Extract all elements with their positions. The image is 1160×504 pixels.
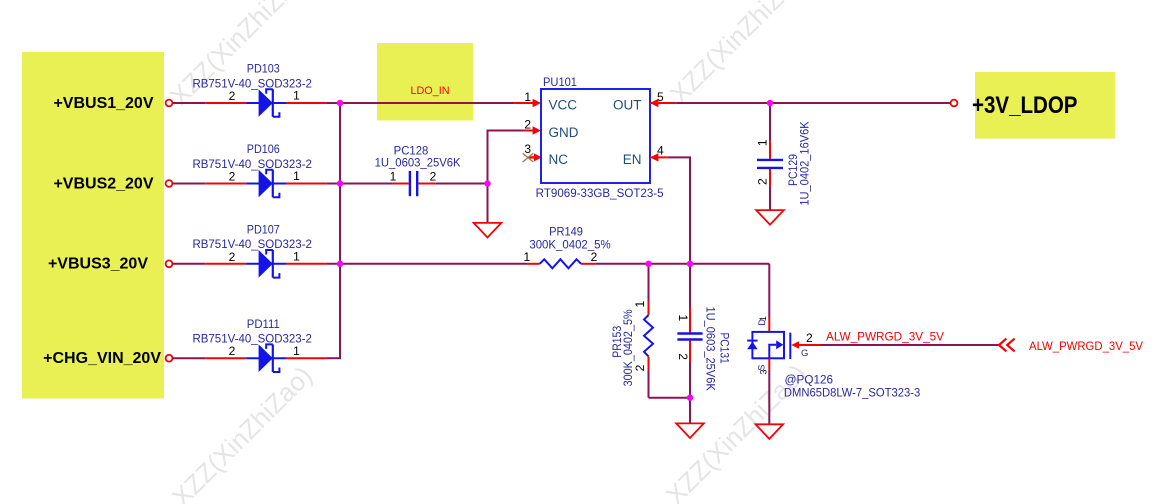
resistor PR149	[523, 227, 610, 269]
svg-text:+VBUS1_20V: +VBUS1_20V	[53, 95, 153, 112]
svg-text:PD107: PD107	[247, 225, 280, 237]
wire row1 red right	[286, 102, 326, 104]
svg-text:2: 2	[806, 331, 813, 345]
svg-text:NC: NC	[549, 152, 569, 167]
wire row4 dark left	[172, 357, 205, 359]
svg-text:1: 1	[676, 314, 690, 321]
svg-text:2: 2	[430, 170, 437, 184]
svg-text:GND: GND	[549, 125, 579, 140]
ground symbol below PQ126	[756, 424, 784, 439]
svg-text:PD106: PD106	[247, 144, 280, 156]
ground symbol below PC129	[756, 210, 784, 225]
svg-text:2: 2	[229, 170, 236, 184]
svg-text:+VBUS2_20V: +VBUS2_20V	[53, 175, 153, 192]
svg-text:PC128: PC128	[394, 145, 429, 157]
wire PR153 bottom to junction	[649, 397, 691, 399]
svg-text:1: 1	[293, 169, 300, 183]
svg-text:XZZ(XinZhiZao): XZZ(XinZhiZao)	[166, 360, 318, 504]
watermark bottom-middle	[660, 358, 812, 504]
node box VBUS inputs (yellow highlight)	[22, 52, 164, 399]
pin 5 arrow OUT	[650, 99, 658, 107]
svg-text:1: 1	[633, 301, 647, 308]
svg-text:3: 3	[524, 142, 531, 156]
watermark bottom-left	[166, 360, 318, 504]
wire row4 red left	[205, 357, 246, 359]
wire row2 dark to PC128	[326, 183, 392, 185]
svg-text:2: 2	[591, 250, 598, 264]
wire row2 red right	[286, 183, 326, 185]
svg-text:XZZ(XinZhiZao): XZZ(XinZhiZao)	[664, 0, 816, 109]
svg-text:2: 2	[229, 89, 236, 103]
svg-text:PC131: PC131	[717, 332, 729, 363]
wire row3 right of PR149	[595, 263, 769, 265]
svg-text:1U_0603_25V6K: 1U_0603_25V6K	[703, 306, 715, 391]
wire OUT pin stub red	[650, 102, 676, 104]
svg-text:ALW_PWRGD_3V_5V: ALW_PWRGD_3V_5V	[1029, 339, 1143, 353]
node junction bus row1	[337, 100, 343, 106]
svg-text:@PQ126: @PQ126	[785, 374, 833, 386]
wire row3 dark left	[172, 263, 205, 265]
pin 1 arrow VCC	[533, 99, 541, 107]
no-connect X on pin 3	[523, 153, 534, 162]
node junction GND-PC128	[484, 180, 490, 186]
wire PQ126 source to ground	[768, 370, 770, 424]
svg-text:3: 3	[759, 369, 769, 374]
wire bus vertical	[339, 103, 341, 358]
op-amp regulator U PU101 box	[541, 89, 650, 183]
terminal port +VBUS3_20V	[166, 260, 173, 267]
svg-text:+VBUS3_20V: +VBUS3_20V	[48, 256, 148, 273]
svg-text:2: 2	[229, 344, 236, 358]
diode PD103	[192, 64, 312, 117]
node LDO_IN highlight	[377, 43, 473, 121]
wire row3 dark to PR149	[326, 263, 527, 265]
wire row1 red left	[205, 102, 246, 104]
wire row4 dark corner to bus	[326, 357, 341, 359]
pin 3 arrow NC	[534, 153, 542, 161]
svg-text:ALW_PWRGD_3V_5V: ALW_PWRGD_3V_5V	[826, 329, 944, 343]
wire EN pin stub red	[650, 156, 668, 158]
node junction PR153 row3	[645, 261, 651, 267]
svg-text:2: 2	[756, 178, 770, 185]
svg-text:1: 1	[293, 344, 300, 358]
svg-text:300K_0402_5%: 300K_0402_5%	[529, 240, 610, 252]
ground symbol below PC131	[676, 423, 704, 438]
svg-text:1: 1	[293, 250, 300, 264]
svg-text:1U_0402_16V6K: 1U_0402_16V6K	[800, 121, 812, 206]
svg-text:1: 1	[756, 139, 770, 146]
diode PD106	[192, 144, 312, 197]
svg-text:2: 2	[676, 353, 690, 360]
svg-text:EN: EN	[623, 152, 642, 167]
node junction bus row2	[337, 180, 343, 186]
off-page connector chevron	[999, 339, 1015, 352]
wire row1 dark to VCC	[326, 102, 514, 104]
svg-text:2: 2	[633, 364, 647, 371]
wire ALW_PWRGD net	[821, 344, 999, 346]
node junction bus row3	[337, 261, 343, 267]
pin 2 arrow gate	[791, 341, 799, 349]
svg-text:1: 1	[390, 170, 397, 184]
svg-text:1: 1	[524, 90, 531, 104]
wire row3 red left	[205, 263, 246, 265]
svg-text:G: G	[801, 348, 808, 359]
pin 4 arrow EN	[650, 153, 658, 161]
node junction PC129	[767, 100, 773, 106]
capacitor PC131	[676, 264, 730, 398]
svg-text:2: 2	[229, 250, 236, 264]
svg-text:VCC: VCC	[549, 97, 578, 112]
wire NC pin stub red	[529, 156, 536, 158]
wire row3 corner down to PQ126 drain	[768, 264, 770, 319]
wire EN net	[668, 157, 690, 263]
watermark top-middle	[664, 0, 816, 109]
svg-text:PD103: PD103	[247, 64, 280, 76]
wire GND net dark	[488, 131, 524, 223]
svg-text:1U_0603_25V6K: 1U_0603_25V6K	[375, 158, 461, 170]
wire row2 red left	[205, 183, 246, 185]
pin 2 arrow GND	[533, 126, 541, 134]
terminal port +CHG_VIN_20V	[166, 355, 173, 362]
svg-text:PD111: PD111	[247, 319, 280, 331]
svg-text:+3V_LDOP: +3V_LDOP	[972, 92, 1078, 119]
wire row4 red right	[286, 357, 326, 359]
diode PD111	[192, 319, 312, 372]
capacitor PC128	[375, 145, 461, 196]
svg-text:DMN65D8LW-7_SOT323-3: DMN65D8LW-7_SOT323-3	[784, 388, 920, 400]
svg-text:PC129: PC129	[788, 154, 800, 186]
wire OUT to +3V_LDOP	[676, 102, 950, 104]
terminal port +VBUS1_20V	[166, 100, 173, 107]
wire junction to ground	[689, 398, 691, 424]
wire row1 dark left	[172, 102, 205, 104]
wire row2 dark left	[172, 183, 205, 185]
ground symbol below PU101	[474, 223, 502, 238]
svg-text:1: 1	[523, 250, 530, 264]
terminal port +VBUS2_20V	[166, 180, 173, 187]
svg-text:PR149: PR149	[549, 227, 583, 239]
svg-text:300K_0402_5%: 300K_0402_5%	[623, 309, 635, 386]
watermark top-left	[164, 0, 316, 111]
svg-text:PR153: PR153	[612, 326, 624, 358]
svg-text:D: D	[757, 319, 767, 326]
svg-text:RT9069-33GB_SOT23-5: RT9069-33GB_SOT23-5	[536, 188, 664, 200]
wire gate stub red	[799, 344, 821, 346]
wire row3 red right	[286, 263, 326, 265]
capacitor PC129	[756, 103, 812, 210]
svg-text:PU101: PU101	[543, 77, 577, 89]
svg-text:2: 2	[524, 117, 531, 131]
node junction PC131 row3	[687, 261, 693, 267]
terminal port +3V_LDOP	[951, 100, 958, 107]
diode PD107	[192, 225, 312, 278]
wire GND pin stub red	[523, 130, 534, 132]
svg-text:1: 1	[293, 89, 300, 103]
svg-text:+CHG_VIN_20V: +CHG_VIN_20V	[43, 350, 161, 367]
wire PC128 to GND junction	[436, 183, 488, 185]
svg-text:LDO_IN: LDO_IN	[411, 85, 450, 97]
resistor PR153	[612, 264, 653, 398]
node junction PC131 bottom	[687, 395, 693, 401]
transistor Q PQ126	[747, 316, 813, 374]
node +3V_LDOP highlight	[975, 72, 1115, 139]
wire VCC pin stub red	[515, 102, 534, 104]
svg-text:OUT: OUT	[613, 97, 642, 112]
